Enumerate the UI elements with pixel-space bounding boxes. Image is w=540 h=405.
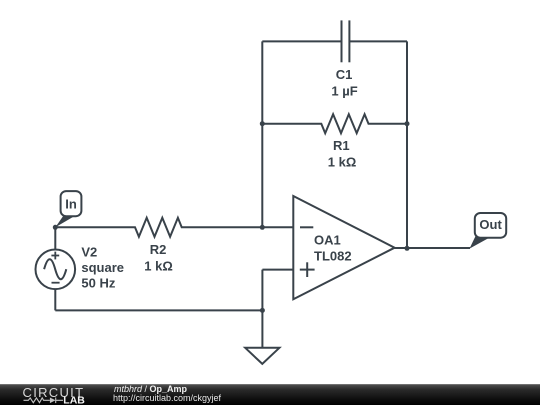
node inverting input	[260, 225, 265, 230]
svg-text:OA1: OA1	[314, 232, 341, 247]
resistor R1	[262, 114, 407, 133]
svg-text:square: square	[81, 260, 124, 275]
flag In	[55, 191, 81, 227]
wire: V2 bottom lead	[54, 289, 56, 310]
node: junction dots	[53, 121, 410, 313]
wire: output lead	[395, 247, 470, 249]
svg-text:V2: V2	[81, 245, 97, 260]
wire: top wire to C1 left plate	[262, 40, 341, 42]
wire: bottom ground rail	[55, 309, 262, 311]
op-amp OA1	[293, 196, 394, 299]
ground	[245, 348, 279, 364]
wire: inverting input lead	[262, 226, 293, 228]
svg-text:C1: C1	[336, 67, 353, 82]
wire: right vertical down to output node	[406, 41, 408, 248]
svg-text:Out: Out	[479, 217, 502, 232]
CircuitLab logo	[0, 384, 110, 405]
resistor R2	[55, 218, 262, 237]
svg-text:In: In	[65, 197, 77, 212]
node R1 right	[405, 121, 410, 126]
wire: top-left feedback vertical	[261, 41, 263, 227]
footer url line	[113, 393, 221, 403]
voltage source V2	[36, 249, 76, 289]
svg-text:R2: R2	[150, 242, 167, 257]
wire: ground stem	[261, 310, 263, 347]
node ground rail	[260, 308, 265, 313]
flag Out	[470, 213, 507, 249]
svg-text:R1: R1	[333, 138, 350, 153]
node feedback/R1 left	[260, 121, 265, 126]
footer bar	[0, 384, 540, 405]
node In	[53, 225, 58, 230]
svg-text:TL082: TL082	[314, 248, 352, 263]
capacitor C1	[342, 20, 350, 62]
node output	[405, 246, 410, 251]
footer credit line	[114, 384, 187, 394]
wire: C1 right plate to right corner	[349, 40, 407, 42]
wire: non-inverting input lead	[262, 269, 293, 271]
svg-text:1 kΩ: 1 kΩ	[144, 259, 173, 274]
svg-text:1 µF: 1 µF	[331, 84, 357, 99]
wire: V2 top lead	[54, 227, 56, 249]
svg-text:LAB: LAB	[63, 394, 85, 405]
wire: non-inverting vertical	[261, 270, 263, 311]
svg-text:50 Hz: 50 Hz	[81, 276, 115, 291]
svg-text:1 kΩ: 1 kΩ	[328, 155, 357, 170]
